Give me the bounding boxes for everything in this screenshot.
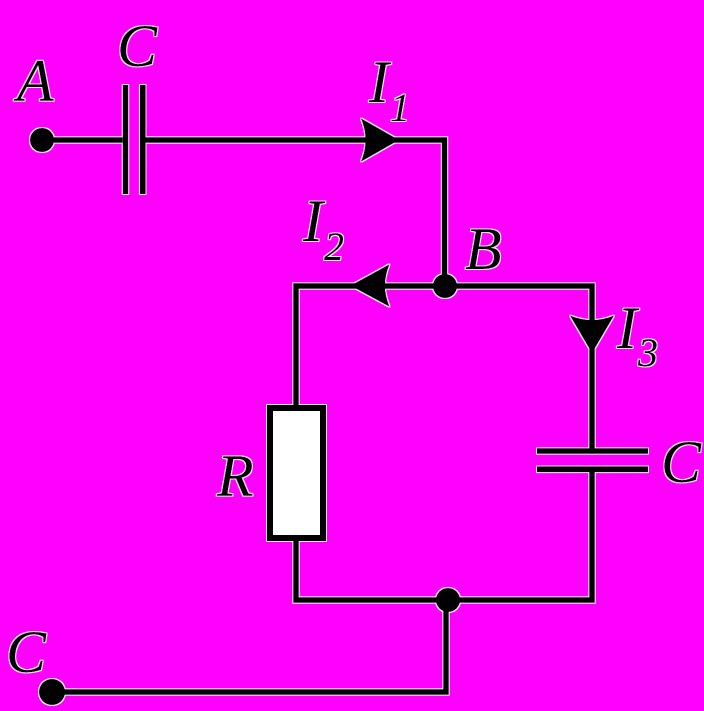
svg-text:A: A	[13, 48, 54, 114]
svg-text:C: C	[661, 429, 702, 495]
svg-text:I: I	[368, 49, 392, 115]
svg-text:2: 2	[324, 224, 344, 269]
svg-text:I: I	[616, 295, 640, 361]
svg-text:3: 3	[637, 330, 658, 375]
svg-text:1: 1	[390, 85, 410, 130]
svg-text:B: B	[465, 216, 502, 282]
svg-text:I: I	[302, 188, 326, 254]
svg-text:C: C	[117, 13, 158, 79]
svg-text:R: R	[216, 443, 254, 509]
svg-text:C: C	[6, 619, 47, 685]
